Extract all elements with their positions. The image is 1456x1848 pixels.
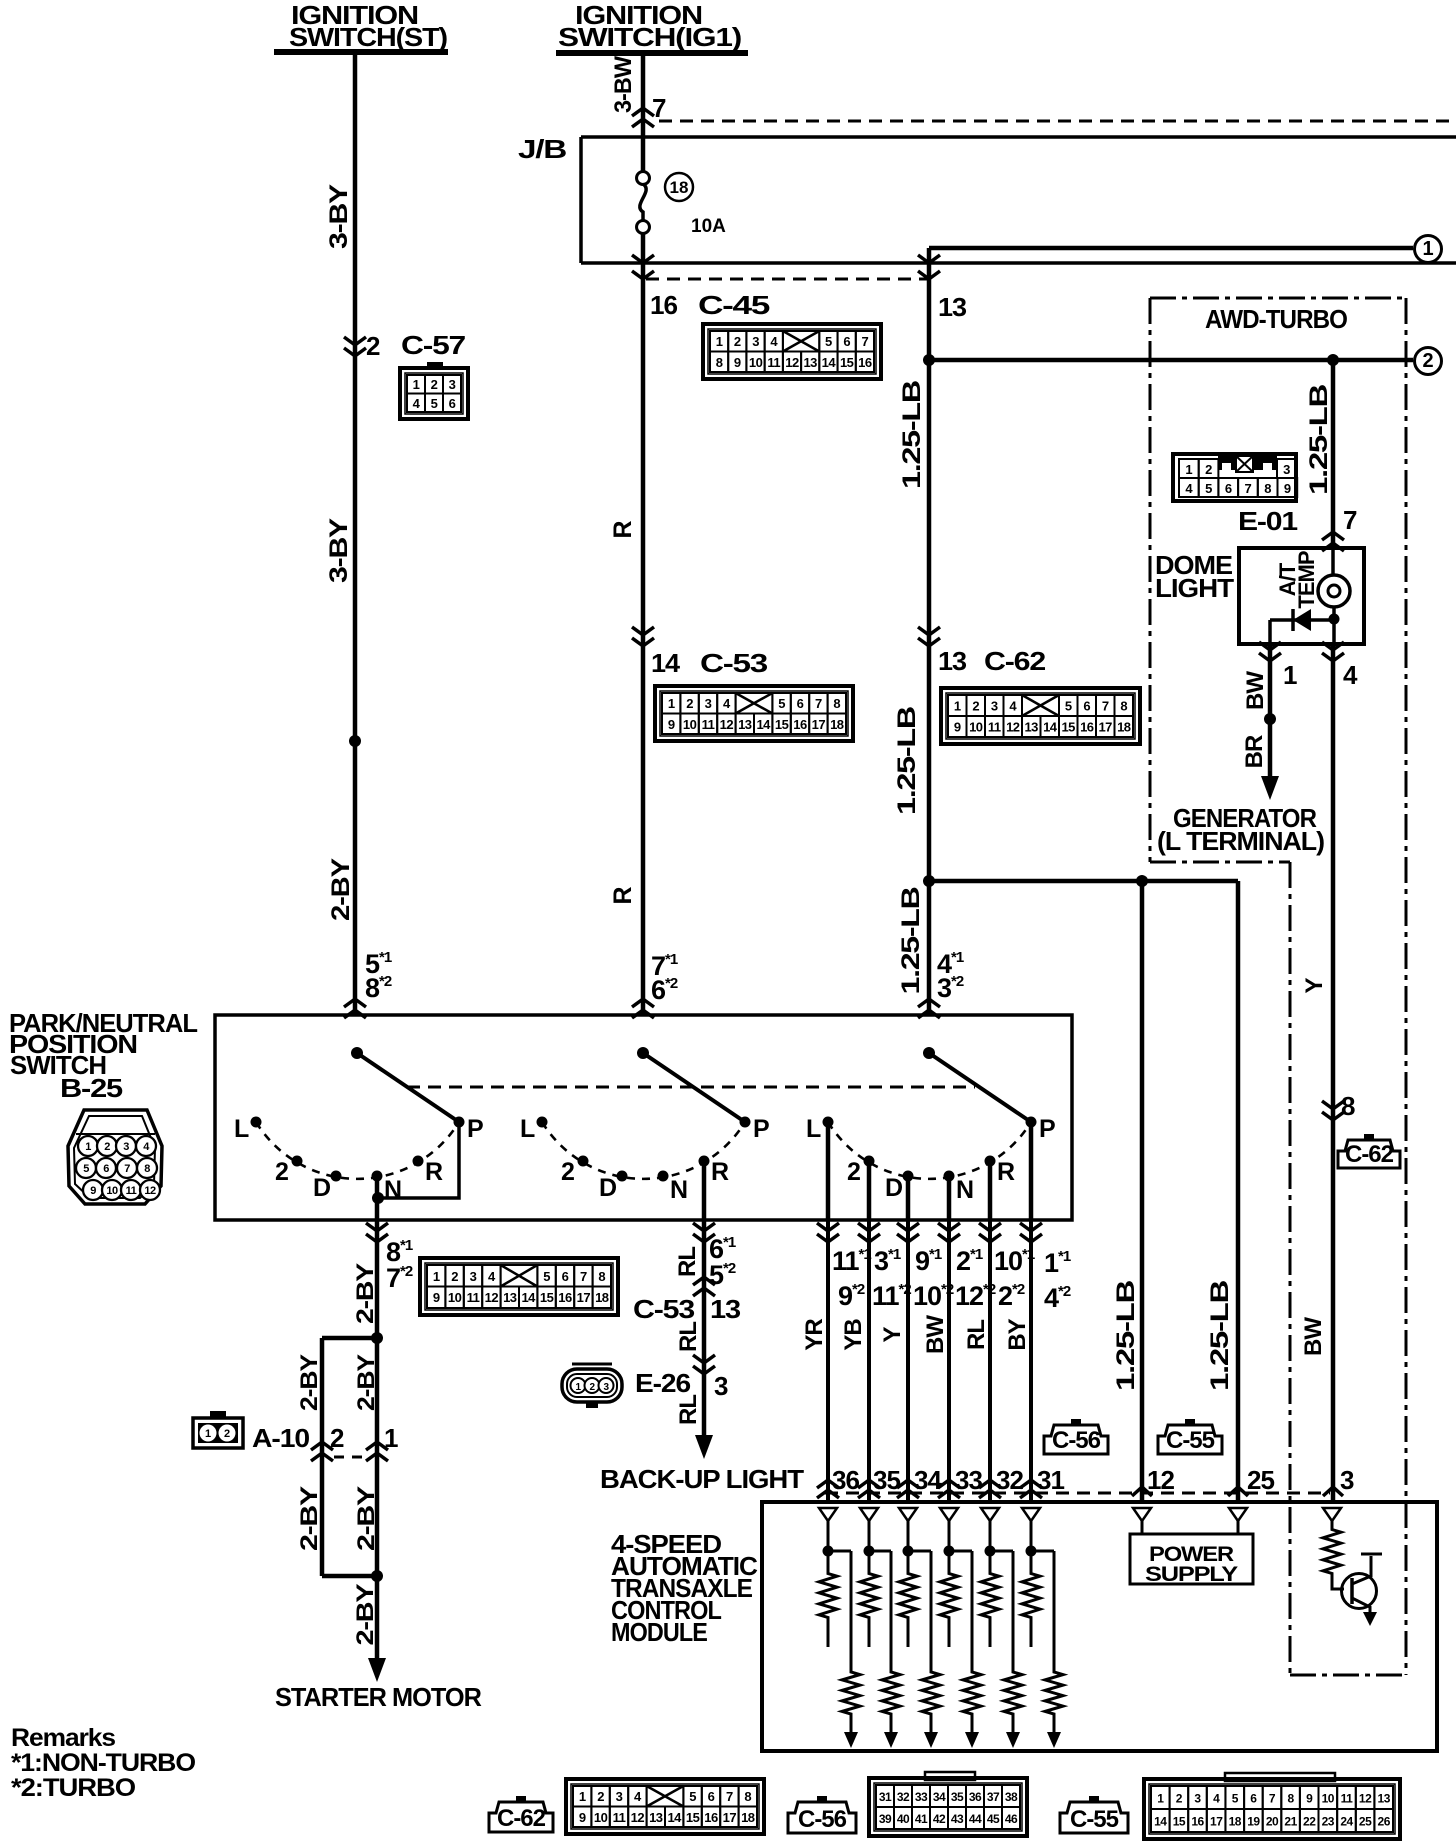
svg-text:8: 8: [144, 1163, 150, 1175]
wire from P and N to output: [377, 1122, 459, 1220]
svg-text:R: R: [609, 521, 637, 539]
series resistor R4b: [949, 1551, 981, 1748]
lamp A/T TEMP indicator: [1318, 548, 1350, 644]
svg-text:11: 11: [126, 1185, 137, 1197]
splice on generator wire: [1264, 713, 1276, 725]
svg-text:BR: BR: [1241, 735, 1268, 768]
svg-text:2-BY: 2-BY: [296, 1486, 323, 1551]
svg-text:2-BY: 2-BY: [327, 857, 355, 921]
C-53 pin 13 arrow: [693, 1277, 715, 1296]
junction to power-supply branch: [923, 875, 935, 887]
switch contact D: [313, 1171, 342, 1203]
PNP pin labels (non-turbo/turbo): [832, 1246, 1071, 1313]
svg-text:11: 11: [613, 1810, 626, 1825]
svg-text:P: P: [467, 1115, 483, 1143]
wire to starter motor: [375, 1576, 380, 1658]
intermediate connector C-56 tag: [1044, 1419, 1108, 1454]
wire label 2-BY: [296, 1486, 323, 1551]
switch contact R: [985, 1156, 1016, 1187]
svg-text:4: 4: [1343, 660, 1358, 690]
wire label 2-BY: [352, 1263, 379, 1324]
park/neutral position switch box: [215, 1015, 1072, 1220]
footer connector C-62 tag: [489, 1796, 553, 1832]
intermediate connector C-62 tag: [1338, 1134, 1400, 1168]
wires from PNP switch to control module pins 36-31: [828, 1220, 1031, 1502]
svg-text:7: 7: [815, 696, 822, 711]
wire label 2-BY: [327, 857, 355, 921]
svg-text:1: 1: [1185, 462, 1192, 477]
svg-text:12: 12: [720, 717, 734, 732]
svg-text:17: 17: [577, 1290, 591, 1305]
svg-text:14: 14: [521, 1290, 536, 1305]
svg-text:13: 13: [938, 292, 967, 322]
switch contact arc: [256, 1122, 459, 1179]
connector A-10 label: [252, 1423, 310, 1453]
svg-text:6: 6: [1083, 699, 1090, 714]
svg-text:15: 15: [840, 355, 854, 370]
svg-text:R: R: [711, 1158, 729, 1186]
connector B-25 icon (12-pin): [68, 1110, 162, 1204]
svg-text:1: 1: [1157, 1792, 1164, 1806]
svg-text:22: 22: [1303, 1815, 1316, 1829]
svg-text:R: R: [609, 887, 637, 905]
svg-text:14: 14: [1043, 720, 1058, 735]
J/B label: [518, 134, 566, 164]
svg-text:15: 15: [775, 717, 789, 732]
svg-text:1: 1: [413, 377, 420, 392]
svg-text:6: 6: [1250, 1792, 1257, 1806]
svg-text:16: 16: [704, 1810, 718, 1825]
C-62 pin 8 arrow: [1322, 1101, 1344, 1120]
svg-text:36: 36: [969, 1790, 982, 1804]
svg-text:3: 3: [1283, 462, 1290, 477]
svg-text:9: 9: [734, 355, 741, 370]
junction at N output: [372, 1192, 384, 1204]
svg-text:12: 12: [1147, 1465, 1174, 1495]
svg-text:2-BY: 2-BY: [352, 1583, 379, 1645]
series resistor R2b: [869, 1551, 900, 1748]
svg-text:Y: Y: [1301, 978, 1328, 994]
junction of AWD-turbo branch: [1327, 354, 1339, 366]
svg-text:5: 5: [543, 1269, 550, 1284]
switch contact R: [413, 1156, 444, 1187]
dome light pin 4 arrow: [1322, 642, 1344, 661]
svg-text:*1:NON-TURBO: *1:NON-TURBO: [11, 1749, 196, 1777]
arrow to generator: [1261, 776, 1279, 800]
svg-text:2: 2: [972, 699, 979, 714]
svg-text:6: 6: [562, 1269, 569, 1284]
series resistor R1b: [828, 1551, 860, 1748]
base resistor: [1323, 1524, 1344, 1589]
svg-text:18: 18: [741, 1810, 755, 1825]
module pin input network 4: [940, 1508, 958, 1557]
svg-text:BY: BY: [1004, 1318, 1031, 1350]
connector E-26 label: [635, 1368, 691, 1398]
pin 14 label: [651, 648, 681, 678]
svg-text:8: 8: [598, 1269, 605, 1284]
svg-text:C-55: C-55: [1070, 1806, 1119, 1833]
svg-text:C-57: C-57: [401, 330, 466, 360]
series resistor R3b: [908, 1551, 940, 1748]
module connector boundary arrows: [817, 1480, 1042, 1498]
svg-text:16: 16: [1080, 720, 1094, 735]
off-page connector circled 2: [1415, 348, 1442, 375]
connector boundary arrow at pin 13: [918, 255, 940, 279]
svg-text:44: 44: [969, 1812, 982, 1826]
dome light unit box: [1239, 548, 1364, 644]
svg-text:L: L: [520, 1115, 535, 1143]
footer connector C-62 icon (18-pin): [566, 1779, 764, 1834]
wire 3-BY/2-BY from ignition switch ST to PNP switch pin 5/8: [353, 53, 358, 1015]
svg-text:BW: BW: [1242, 671, 1269, 710]
svg-text:14: 14: [651, 648, 681, 678]
svg-text:L: L: [234, 1115, 249, 1143]
arrow to back-up light: [695, 1435, 713, 1459]
dashed connector boundary A-10: [334, 1456, 366, 1459]
svg-text:(L TERMINAL): (L TERMINAL): [1157, 826, 1324, 856]
series resistor R5b: [990, 1551, 1022, 1748]
connector C-53 label: [633, 1294, 695, 1324]
svg-text:C-53: C-53: [700, 648, 768, 678]
svg-text:36: 36: [832, 1465, 859, 1495]
node IGNITION SWITCH(IG1) label: [556, 0, 748, 53]
fuse rating 10A: [691, 216, 726, 237]
PNP pin label 6/5: [709, 1234, 736, 1290]
svg-text:5: 5: [689, 1789, 696, 1804]
dashed connector boundary C-45: [646, 278, 929, 281]
switch wiper at x=929: [923, 1047, 1031, 1122]
svg-text:BW: BW: [922, 1315, 949, 1354]
svg-text:10: 10: [448, 1290, 462, 1305]
svg-text:35: 35: [873, 1465, 900, 1495]
svg-text:3: 3: [991, 699, 998, 714]
svg-text:2: 2: [1205, 462, 1212, 477]
svg-text:2: 2: [224, 1428, 230, 1440]
svg-text:5: 5: [825, 334, 832, 349]
DOME LIGHT label: [1155, 550, 1234, 603]
svg-text:15: 15: [686, 1810, 700, 1825]
remarks legend: [11, 1724, 196, 1802]
svg-text:N: N: [384, 1176, 401, 1204]
wire label BR: [1241, 735, 1268, 768]
svg-text:8: 8: [1120, 699, 1127, 714]
power supply block: [1130, 1508, 1253, 1586]
svg-text:18: 18: [1229, 1815, 1242, 1829]
wire label 1.25-LB: [897, 888, 925, 995]
switch wiper at x=643: [637, 1047, 745, 1122]
svg-text:16: 16: [650, 290, 678, 320]
connector C-62 icon (18-pin): [941, 688, 1140, 744]
switch contact P: [454, 1115, 484, 1143]
svg-text:11: 11: [988, 720, 1001, 735]
svg-text:10: 10: [749, 355, 763, 370]
svg-text:21: 21: [1284, 1815, 1297, 1829]
svg-text:32: 32: [996, 1465, 1023, 1495]
GENERATOR (L TERMINAL) label: [1157, 803, 1324, 856]
svg-text:2: 2: [451, 1269, 458, 1284]
connector E-01 icon (9-pin): [1173, 454, 1297, 501]
wire 3-BW from ignition switch IG1 into junction block: [641, 53, 646, 172]
series resistor R6b: [1031, 1551, 1063, 1748]
svg-text:2: 2: [275, 1158, 288, 1186]
svg-text:2: 2: [686, 696, 693, 711]
switch contact R: [699, 1156, 730, 1187]
A-10 pin 2 label: [330, 1423, 344, 1453]
footer connector C-56 icon (16-pin): [869, 1772, 1027, 1836]
diode D1 (dome light): [1270, 609, 1334, 644]
svg-text:5: 5: [1232, 1792, 1239, 1806]
J/B pin 7 arrow: [632, 108, 654, 127]
switch contact L: [806, 1115, 834, 1143]
svg-text:43: 43: [951, 1812, 964, 1826]
transistor Q1: [1342, 1554, 1383, 1626]
connector A-10 icon (2-pin): [193, 1411, 243, 1448]
svg-text:SUPPLY: SUPPLY: [1145, 1563, 1238, 1586]
connector C-57 pin 2 arrow: [344, 337, 366, 356]
svg-text:6: 6: [449, 396, 456, 411]
pull resistor R6a: [1022, 1551, 1040, 1647]
svg-text:7: 7: [652, 93, 666, 123]
svg-text:12: 12: [1359, 1792, 1372, 1806]
svg-text:5: 5: [431, 396, 438, 411]
junction at branch bottom: [371, 1570, 383, 1582]
node IGNITION SWITCH(ST) label: [274, 0, 448, 52]
svg-text:7: 7: [580, 1269, 587, 1284]
PNP pin label 8/7: [386, 1237, 413, 1293]
wire label BW: [1242, 671, 1269, 710]
svg-text:16: 16: [1191, 1815, 1204, 1829]
svg-text:13: 13: [1378, 1792, 1391, 1806]
svg-text:SWITCH(ST): SWITCH(ST): [289, 22, 447, 52]
switch contact P: [740, 1115, 770, 1143]
svg-text:38: 38: [1005, 1790, 1018, 1804]
wire label 3-BY: [325, 183, 353, 249]
svg-text:*2:TURBO: *2:TURBO: [11, 1774, 136, 1802]
svg-text:18: 18: [830, 717, 844, 732]
svg-text:YB: YB: [840, 1319, 867, 1351]
wire label 1.25-LB: [893, 707, 921, 815]
svg-text:8: 8: [1341, 1091, 1355, 1121]
svg-text:1: 1: [579, 1789, 586, 1804]
svg-text:1.25-LB: 1.25-LB: [893, 707, 921, 815]
connector C-57 label: [401, 330, 466, 360]
wire label Y: [1301, 978, 1328, 994]
svg-text:C-62: C-62: [984, 646, 1046, 676]
svg-text:12: 12: [144, 1185, 156, 1197]
svg-text:13: 13: [710, 1294, 741, 1324]
module pin numbers 36-31: [832, 1465, 1064, 1495]
svg-text:10: 10: [969, 720, 983, 735]
svg-text:45: 45: [987, 1812, 1000, 1826]
svg-text:7: 7: [124, 1163, 130, 1175]
svg-text:R: R: [997, 1158, 1015, 1186]
svg-text:N: N: [670, 1176, 687, 1204]
svg-text:34: 34: [914, 1465, 942, 1495]
E-26 pin 3 label: [714, 1371, 728, 1401]
svg-text:6: 6: [843, 334, 850, 349]
pin 16 label: [650, 290, 678, 320]
switch contact D: [885, 1171, 914, 1203]
svg-text:2-BY: 2-BY: [296, 1354, 323, 1411]
svg-text:STARTER MOTOR: STARTER MOTOR: [275, 1682, 482, 1712]
A-10 pin 1 label: [384, 1423, 398, 1453]
svg-text:RL: RL: [674, 1247, 701, 1277]
wire BW to generator: [1268, 644, 1273, 781]
module pin 12 arrow: [1132, 1487, 1152, 1496]
svg-text:N: N: [956, 1176, 973, 1204]
switch contact N: [372, 1171, 402, 1205]
module pin 25 arrow: [1228, 1487, 1248, 1496]
junction of bus 2 on 1.25-LB wire: [923, 354, 935, 366]
AWD-turbo input circuit in module: [1323, 1508, 1341, 1524]
svg-text:12: 12: [785, 355, 799, 370]
svg-text:25: 25: [1247, 1465, 1274, 1495]
svg-text:8: 8: [744, 1789, 751, 1804]
svg-text:14: 14: [1154, 1815, 1167, 1829]
svg-text:19: 19: [1247, 1815, 1260, 1829]
svg-text:37: 37: [987, 1790, 1000, 1804]
svg-text:2: 2: [366, 331, 380, 361]
wire label 3-BY: [325, 517, 353, 583]
PNP switch pin label 7/6: [651, 951, 678, 1005]
wire label 1.25-LB: [1206, 1281, 1234, 1391]
svg-text:11: 11: [1341, 1792, 1354, 1806]
connector C-57 icon (6-pin): [400, 362, 468, 419]
svg-text:3: 3: [752, 334, 759, 349]
svg-text:9: 9: [1284, 481, 1291, 496]
module pin input network 1: [819, 1508, 837, 1557]
svg-text:2: 2: [1176, 1792, 1183, 1806]
svg-text:15: 15: [1061, 720, 1075, 735]
svg-text:2: 2: [847, 1158, 860, 1186]
dashed bus line to sheet edge: [659, 120, 1456, 123]
PNP switch pin label 5 (non-turbo) / 8 (turbo): [365, 949, 392, 1003]
svg-text:9: 9: [954, 720, 961, 735]
svg-text:4: 4: [1213, 1792, 1220, 1806]
wire 1.25-LB from bus 1 down to PNP switch pin 4/3: [927, 248, 932, 1015]
svg-text:C-45: C-45: [698, 290, 770, 320]
PNP switch output arrows: [366, 1223, 1042, 1242]
svg-text:2: 2: [734, 334, 741, 349]
svg-text:10: 10: [594, 1810, 608, 1825]
svg-text:D: D: [885, 1174, 902, 1202]
footer connector C-55 icon (26-pin): [1144, 1773, 1400, 1839]
connector E-26 icon (3-pin): [562, 1364, 622, 1408]
pull resistor R3a: [899, 1551, 917, 1647]
svg-text:18: 18: [595, 1290, 609, 1305]
pull resistor R5a: [981, 1551, 999, 1647]
svg-text:34: 34: [933, 1790, 946, 1804]
footer connector C-55 tag: [1060, 1796, 1128, 1833]
svg-text:3: 3: [705, 696, 712, 711]
wire label 2-BY: [353, 1354, 380, 1411]
svg-text:3-BW: 3-BW: [610, 56, 637, 113]
module pin input network 3: [899, 1508, 917, 1557]
svg-text:35: 35: [951, 1790, 964, 1804]
switch contact L: [234, 1115, 262, 1143]
svg-text:15: 15: [1173, 1815, 1186, 1829]
switch contact arc: [542, 1122, 745, 1179]
PNP switch input arrows: [344, 999, 940, 1018]
svg-text:16: 16: [793, 717, 807, 732]
connector C-53 label: [700, 648, 768, 678]
wire label 1.25-LB: [1305, 385, 1333, 495]
switch contact 2: [561, 1156, 589, 1187]
svg-text:3: 3: [616, 1789, 623, 1804]
pin 4 label: [1343, 660, 1358, 690]
svg-text:10: 10: [683, 717, 697, 732]
BACK-UP LIGHT label: [600, 1464, 804, 1494]
parallel branch to connector A-10: [322, 1338, 377, 1576]
svg-text:1: 1: [205, 1428, 211, 1440]
svg-text:42: 42: [933, 1812, 946, 1826]
svg-text:P: P: [753, 1115, 769, 1143]
pull resistor R2a: [860, 1551, 878, 1647]
module pin input network 5: [981, 1508, 999, 1557]
wire 1.25-LB branch to power supply: [929, 881, 1238, 1502]
svg-text:17: 17: [1098, 720, 1112, 735]
svg-text:12: 12: [631, 1810, 645, 1825]
connector C-53 icon (18-pin): [655, 686, 853, 741]
connector C-45 icon (16-pin): [703, 324, 881, 379]
dashed connector boundary at module: [825, 1492, 1330, 1495]
connector C-62 label: [984, 646, 1046, 676]
pin 7 label: [652, 93, 666, 123]
svg-text:6: 6: [708, 1789, 715, 1804]
svg-text:7: 7: [726, 1789, 733, 1804]
switch wiper at x=357: [351, 1047, 459, 1122]
svg-text:1: 1: [668, 696, 675, 711]
arrow to starter motor: [368, 1658, 386, 1682]
svg-text:12: 12: [485, 1290, 499, 1305]
svg-text:3: 3: [1194, 1792, 1201, 1806]
svg-text:1: 1: [954, 699, 961, 714]
svg-text:LIGHT: LIGHT: [1155, 573, 1234, 603]
svg-text:MODULE: MODULE: [611, 1617, 708, 1647]
4-speed A/T control module box: [762, 1502, 1437, 1751]
junction at branch top: [371, 1332, 383, 1344]
svg-text:17: 17: [723, 1810, 737, 1825]
svg-text:1: 1: [716, 334, 723, 349]
svg-text:B-25: B-25: [60, 1073, 123, 1103]
svg-text:7: 7: [1343, 505, 1357, 535]
svg-text:31: 31: [879, 1790, 892, 1804]
svg-text:13: 13: [503, 1290, 517, 1305]
svg-text:14: 14: [822, 355, 837, 370]
svg-text:L: L: [806, 1115, 821, 1143]
connector boundary arrow at C-45 pin 16: [632, 255, 654, 279]
svg-text:41: 41: [915, 1812, 928, 1826]
connector C-45 label: [698, 290, 770, 320]
AWD-TURBO label: [1205, 304, 1348, 334]
wire label BW: [1300, 1317, 1327, 1356]
PNP switch pin label 4/3: [937, 949, 964, 1003]
svg-text:3: 3: [123, 1141, 129, 1153]
pin 1 label: [1283, 660, 1297, 690]
svg-text:33: 33: [955, 1465, 982, 1495]
module pin 12 label: [1147, 1465, 1174, 1495]
svg-text:2: 2: [561, 1158, 574, 1186]
wire RL from PNP R contact to back-up light: [702, 1220, 707, 1436]
E-01 pin 7 arrow: [1322, 532, 1344, 551]
svg-text:2-BY: 2-BY: [353, 1354, 380, 1411]
svg-text:1.25-LB: 1.25-LB: [1112, 1281, 1140, 1391]
fuse 18 (10A) in junction block: [637, 172, 650, 264]
svg-text:7: 7: [1102, 699, 1109, 714]
wire label 1.25-LB: [898, 381, 926, 489]
wire label R: [609, 521, 637, 539]
svg-text:D: D: [313, 1174, 330, 1202]
